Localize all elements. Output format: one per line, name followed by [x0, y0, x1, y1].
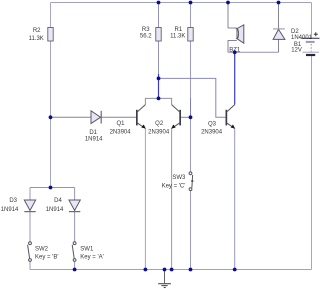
wire buzzer to D2	[228, 51, 279, 53]
svg-text:2N3904: 2N3904	[201, 129, 223, 135]
buzzer BZ1	[229, 25, 244, 54]
svg-text:11.3K: 11.3K	[170, 34, 185, 40]
node buzzer Q3	[233, 50, 237, 54]
wire base row to D1	[51, 116, 92, 118]
svg-text:D1: D1	[89, 130, 97, 136]
wire collector rail Q1 Q2	[145, 98, 171, 104]
svg-text:2N3904: 2N3904	[148, 129, 170, 135]
svg-text:D3: D3	[9, 198, 17, 204]
svg-text:Q3: Q3	[208, 121, 217, 127]
wire top rail	[51, 2, 312, 4]
node D3 D4 header	[49, 186, 53, 190]
wire R1 column vivid segment	[190, 98, 192, 117]
svg-text:Key = 'A': Key = 'A'	[80, 254, 103, 260]
wire right rail upper	[311, 3, 313, 39]
node rail Q2e	[170, 268, 174, 272]
node Q2 base R1	[189, 115, 193, 119]
wire SW1 to rail	[74, 261, 76, 269]
wire right rail lower	[311, 56, 313, 270]
svg-text:1N914: 1N914	[1, 207, 19, 213]
wire SW2 to rail	[29, 261, 31, 269]
svg-text:SW1: SW1	[80, 246, 94, 252]
wire buzzer bottom stub	[228, 41, 237, 53]
svg-text:R3: R3	[142, 27, 150, 33]
svg-text:Q1: Q1	[116, 121, 125, 127]
transistor Q3	[201, 105, 235, 136]
resistor R2	[29, 28, 54, 42]
wire bottom rail	[30, 269, 312, 271]
node rail ground	[163, 268, 167, 272]
wire R1 column below SW3	[190, 191, 192, 270]
svg-text:R2: R2	[33, 28, 41, 34]
wire D2 column upper	[278, 3, 280, 30]
node rail SW1	[73, 268, 77, 272]
diode D2	[273, 29, 313, 41]
wire R3 column vivid segment	[158, 74, 160, 98]
wire R1 column upper	[190, 3, 192, 172]
svg-text:Key = 'C': Key = 'C'	[162, 183, 186, 189]
resistor R3	[140, 27, 161, 41]
diode D1	[85, 111, 103, 143]
wire branch R3 to Q3 base	[159, 78, 226, 117]
svg-text:D2: D2	[291, 29, 299, 35]
wire Q2 emitter down	[171, 128, 173, 269]
transistor Q2	[148, 105, 181, 136]
switch SW1	[72, 242, 104, 262]
battery B1	[291, 32, 319, 56]
wire left rail	[50, 3, 52, 188]
wire Q2 base stub	[181, 116, 191, 118]
wire buzzer feed	[227, 3, 229, 29]
resistor R1	[170, 27, 193, 41]
wire D3 D4 header	[30, 187, 75, 189]
node collector rail	[157, 97, 161, 101]
wire D3 column	[29, 188, 31, 242]
svg-text:1N914: 1N914	[46, 207, 64, 213]
wire Q1 emitter down	[144, 128, 146, 269]
node top D2	[277, 1, 281, 5]
svg-text:1N914: 1N914	[85, 136, 103, 142]
svg-text:Key = 'B': Key = 'B'	[35, 254, 58, 260]
node rail Q1e	[144, 268, 148, 272]
wire D2 column lower	[278, 40, 280, 53]
wire D4 column	[74, 188, 76, 242]
ground	[158, 284, 171, 288]
wire R3 column	[158, 3, 160, 99]
svg-text:12V: 12V	[291, 48, 302, 54]
svg-text:56.2: 56.2	[140, 34, 152, 40]
svg-text:SW2: SW2	[35, 246, 49, 252]
node rail SW3	[189, 268, 193, 272]
wire Q3 emitter down	[234, 128, 236, 269]
switch SW2	[28, 242, 59, 262]
svg-text:SW3: SW3	[172, 175, 186, 181]
node top buzzer	[226, 1, 230, 5]
svg-text:2N3904: 2N3904	[110, 129, 132, 135]
wire Q3 collector link	[234, 52, 236, 104]
node R3 branch	[157, 77, 161, 81]
diode D3	[1, 198, 36, 213]
svg-text:11.3K: 11.3K	[29, 36, 44, 42]
wire D1 to Q1 base	[102, 116, 137, 118]
wire ground stub	[164, 270, 166, 284]
node left base row	[49, 115, 53, 119]
svg-text:Q2: Q2	[155, 121, 164, 127]
svg-text:D4: D4	[54, 198, 62, 204]
node top R1	[189, 1, 193, 5]
node top R3	[157, 1, 161, 5]
switch SW3	[162, 172, 194, 191]
svg-text:R1: R1	[175, 27, 183, 33]
diode D4	[46, 198, 81, 213]
node rail Q3e	[233, 268, 237, 272]
transistor Q1	[110, 105, 146, 136]
wire buzzer top stub	[228, 27, 237, 29]
